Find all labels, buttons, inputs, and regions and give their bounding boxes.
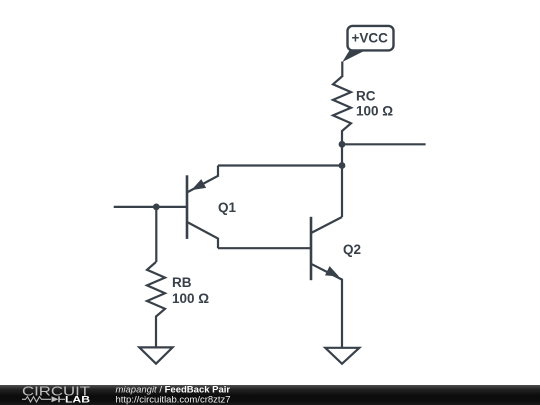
wire vertical RC node down: [341, 144, 343, 165]
transistor Q1 emitter diagonal: [188, 166, 218, 193]
transistor Q1 base bar: [186, 175, 189, 239]
footer bar: [0, 385, 540, 405]
svg-text:RC: RC: [356, 89, 376, 104]
wire Q1 emitter to node: [218, 164, 342, 166]
svg-text:LAB: LAB: [65, 394, 90, 405]
power flag +VCC box: [348, 26, 394, 51]
wire Q1 collector to Q2 base: [218, 247, 310, 249]
svg-text:Q1: Q1: [218, 200, 237, 215]
wire node down to Q2 collector: [341, 166, 343, 218]
svg-text:+VCC: +VCC: [352, 31, 389, 46]
wire RB top: [155, 207, 157, 262]
transistor Q2 base bar: [310, 217, 313, 280]
wire Q1 base: [114, 206, 187, 208]
ground right: [325, 348, 359, 364]
svg-text:100 Ω: 100 Ω: [356, 103, 393, 118]
svg-text:100 Ω: 100 Ω: [172, 291, 209, 306]
transistor Q1 collector diagonal: [188, 222, 218, 248]
junction dot node1: [339, 141, 346, 148]
resistor RC: [333, 77, 351, 145]
svg-text:http://circuitlab.com/cr8ztz7: http://circuitlab.com/cr8ztz7: [116, 394, 231, 405]
wire node to right: [342, 143, 426, 145]
junction dot node2: [339, 162, 346, 169]
svg-text:RB: RB: [172, 275, 192, 290]
junction dot Q1 base: [153, 204, 160, 211]
ground left: [139, 347, 172, 363]
VCC flag tail wire: [341, 62, 343, 78]
transistor Q2 collector diagonal: [312, 217, 342, 233]
transistor Q2 emitter diagonal: [312, 264, 342, 348]
Q2 NPN arrow: [325, 266, 339, 276]
Q1 PNP arrow: [191, 179, 206, 190]
svg-text:Q2: Q2: [343, 242, 361, 257]
footer logo and text: [0, 385, 540, 405]
VCC flag tail: [342, 50, 367, 63]
resistor RB: [147, 262, 165, 347]
